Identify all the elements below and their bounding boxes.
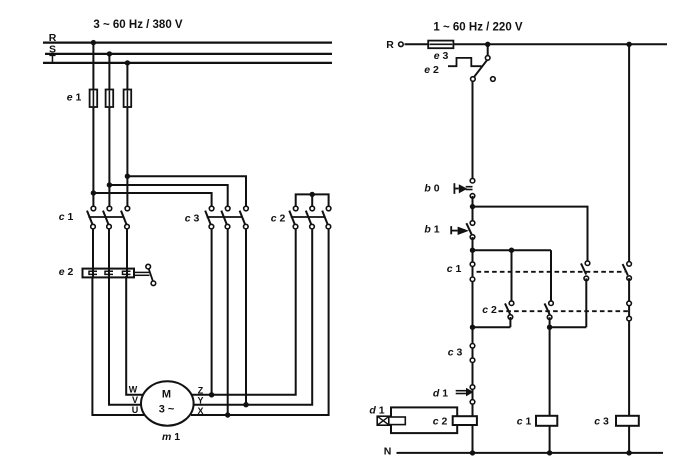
c1 pole3 top terminal	[125, 206, 130, 211]
svg-text:e 3: e 3	[434, 50, 449, 62]
c3 pole3 bottom terminal	[244, 224, 249, 229]
contactor c3	[185, 206, 249, 229]
svg-text:T: T	[49, 53, 56, 65]
svg-text:c 2: c 2	[433, 416, 448, 428]
wire c3 pole3 down to Y row	[245, 227, 247, 405]
wire branch b0 to c1 contact (587)	[473, 207, 588, 264]
svg-text:3 ~: 3 ~	[159, 404, 175, 416]
svg-text:e 1: e 1	[67, 92, 82, 104]
e2 trip rod	[134, 271, 150, 273]
terminal R	[399, 42, 404, 47]
e2 bottom terminal	[471, 77, 476, 82]
svg-text:W: W	[129, 385, 138, 395]
c2 pole3 bottom terminal	[326, 224, 331, 229]
wire branch S to c3 pole2	[109, 185, 227, 209]
wire bottom tie right	[550, 326, 587, 328]
node T tap	[125, 60, 130, 65]
wire branch T to c3 pole3	[127, 176, 246, 208]
c3 pole3 lever	[240, 211, 245, 225]
contactor c1	[59, 206, 130, 229]
pushbutton b0	[424, 178, 474, 198]
svg-text:d 1: d 1	[433, 388, 448, 400]
c1 pole3 bottom terminal	[125, 224, 130, 229]
motor m1 body	[141, 381, 194, 425]
svg-text:e 2: e 2	[424, 64, 439, 76]
e2 open terminal	[491, 77, 496, 82]
wire phase S drop	[108, 54, 110, 209]
rail R	[43, 41, 332, 43]
wire N rail	[397, 452, 664, 454]
svg-text:c 3: c 3	[448, 347, 463, 359]
c3 pole2 lever	[221, 211, 226, 225]
node branch T	[125, 174, 130, 179]
wire main column lower	[472, 237, 474, 453]
c1 linkage	[88, 216, 123, 218]
c1 pole1 top terminal	[91, 206, 96, 211]
wire b0 to b1	[472, 196, 474, 223]
c1 linkage dashed	[477, 271, 626, 273]
wire c1 pole2 to motor V	[109, 229, 142, 405]
svg-text:b 0: b 0	[424, 183, 439, 195]
svg-text:d 1: d 1	[369, 404, 384, 416]
svg-text:m 1: m 1	[162, 431, 180, 443]
e2 trip top terminal	[146, 264, 151, 269]
e2 top terminal	[485, 56, 490, 61]
node Y/c3p3	[243, 402, 248, 407]
c2 pole2 lever	[306, 211, 311, 225]
svg-text:V: V	[132, 395, 138, 405]
lever	[581, 263, 586, 274]
svg-text:c 1: c 1	[59, 211, 74, 223]
e2 control contact	[424, 44, 495, 81]
node Z/c3p1	[209, 392, 214, 397]
fuse e1 pole2	[106, 90, 114, 108]
b1 lever	[466, 223, 471, 235]
d1 timed contact	[433, 385, 475, 404]
svg-text:c 1: c 1	[447, 263, 462, 275]
right branch (629)	[623, 44, 632, 453]
node N / c1 coil	[547, 450, 552, 455]
c1 pole2 bottom terminal	[107, 224, 112, 229]
node top rail / right branch	[626, 42, 631, 47]
svg-text:b 1: b 1	[424, 224, 439, 236]
node branch 511	[509, 248, 514, 253]
b1 plunger	[458, 227, 469, 235]
svg-text:c 3: c 3	[594, 415, 609, 427]
svg-text:c 1: c 1	[517, 415, 532, 427]
svg-text:c 2: c 2	[271, 213, 286, 225]
node X/c3p2	[225, 412, 230, 417]
e2 thermal bump	[448, 58, 482, 66]
c2 aux contact (551)	[545, 250, 554, 453]
c2 aux contact (629)	[627, 301, 632, 306]
svg-text:R: R	[386, 39, 394, 51]
e2 trip bottom terminal	[151, 281, 156, 286]
node top rail / e2	[485, 42, 490, 47]
c1 pole1 bottom terminal	[91, 224, 96, 229]
node tie left	[470, 325, 475, 330]
wire motor X row to c2 pole3	[191, 227, 329, 415]
wire main column upper	[472, 81, 474, 181]
c2 linkage dashed	[499, 310, 630, 312]
wire bottom tie left	[473, 326, 511, 328]
svg-text:1 ~ 60 Hz / 220 V: 1 ~ 60 Hz / 220 V	[433, 22, 523, 34]
c3 pole1 top terminal	[209, 206, 214, 211]
c3 pole3 top terminal	[244, 206, 249, 211]
wire 511 drop	[511, 250, 513, 303]
c1 pole2 top terminal	[107, 206, 112, 211]
b0 bottom terminal	[470, 194, 475, 199]
e2 trip lever	[149, 269, 153, 281]
c1 aux contact (main column)	[470, 262, 475, 267]
svg-text:U: U	[132, 405, 139, 415]
c3 interlock contact (main column)	[470, 344, 475, 349]
svg-text:c 2: c 2	[482, 304, 497, 316]
c1 pole3 lever	[121, 211, 126, 225]
e2 heater pole2	[105, 271, 113, 274]
c1 pole1 lever	[87, 211, 92, 225]
b0 plunger	[459, 184, 468, 193]
wire 511 bottom	[509, 317, 511, 327]
svg-text:N: N	[384, 446, 392, 458]
b0 bridge	[466, 186, 473, 188]
lever	[545, 303, 550, 314]
fuse e1 pole3	[124, 90, 132, 108]
timer d1 link bar	[389, 417, 406, 425]
e2 stub	[487, 44, 489, 58]
pushbutton b1	[424, 221, 474, 240]
c1 pole2 lever	[103, 211, 108, 225]
svg-text:3 ~ 60 Hz / 380 V: 3 ~ 60 Hz / 380 V	[93, 19, 183, 31]
node R tap	[91, 40, 96, 45]
node N / c3 coil	[626, 450, 631, 455]
b1 top terminal	[470, 221, 475, 226]
svg-text:M: M	[162, 389, 171, 401]
rail S	[45, 53, 332, 55]
wire c1 pole3 to motor W	[126, 229, 144, 395]
node branch S	[107, 182, 112, 187]
d1 arrow	[456, 390, 467, 392]
svg-text:R: R	[49, 32, 57, 44]
svg-text:c 3: c 3	[185, 213, 200, 225]
c2 pole3 lever	[322, 211, 327, 225]
wire 629 lower	[628, 278, 630, 453]
wire branch R to c3 pole1	[93, 193, 211, 209]
fuse e1 pole1	[90, 90, 98, 108]
node N / c2 coil	[470, 450, 475, 455]
c2 pole1 top terminal	[293, 206, 298, 211]
c3 linkage	[207, 216, 242, 218]
wire phase R drop	[92, 43, 94, 209]
wire c3 pole2 down to X row	[227, 227, 229, 415]
contactor c2	[271, 192, 331, 229]
wire motor Y row to c2 pole2	[193, 227, 312, 405]
node branch R	[91, 190, 96, 195]
node b1 branch	[470, 248, 475, 253]
c3 pole1 lever	[205, 211, 210, 225]
timer d1 motor box	[377, 416, 389, 425]
node c2 bar	[310, 192, 315, 197]
c2 pole2 top terminal	[310, 206, 315, 211]
c1 aux contact (587)	[581, 261, 590, 327]
overload relay e2 body	[83, 269, 135, 278]
c2 aux contact (511)	[505, 250, 514, 327]
b1 bottom terminal	[470, 235, 475, 240]
c1 aux contact (629) lever	[623, 264, 628, 275]
c2 pole3 top terminal	[326, 206, 331, 211]
wire motor Z row to c2 pole1	[192, 227, 296, 395]
wire top rail	[405, 43, 668, 45]
lever	[505, 303, 510, 314]
e2 heater pole3	[123, 271, 131, 274]
rail T	[43, 62, 332, 64]
wire 629 upper	[628, 44, 630, 264]
e2 heater pole1	[89, 271, 97, 274]
c2 linkage	[291, 216, 325, 218]
fuse e3	[428, 41, 453, 49]
node S tap	[107, 51, 112, 56]
wire branch b1 row	[473, 249, 552, 251]
c3 pole1 bottom terminal	[209, 224, 214, 229]
wire 587 bottom	[585, 278, 587, 327]
node tie right	[547, 325, 552, 330]
svg-text:e 2: e 2	[59, 266, 74, 278]
wire c1 pole1 to motor U	[92, 229, 144, 415]
c2 shorting bar	[296, 194, 329, 208]
wire c3 pole1 down to Z row	[211, 227, 213, 395]
coil c2	[453, 416, 477, 425]
c2 pole2 bottom terminal	[310, 224, 315, 229]
wire phase T drop	[126, 63, 128, 209]
e2 lever	[474, 60, 487, 77]
c3 pole2 bottom terminal	[225, 224, 230, 229]
wire 551 down to coil c1 and N	[549, 317, 551, 453]
c3 pole2 top terminal	[225, 206, 230, 211]
coil c3	[616, 416, 639, 426]
b0 top terminal	[470, 178, 475, 183]
timer d1 body	[391, 407, 457, 433]
c2 pole1 bottom terminal	[293, 224, 298, 229]
coil c1	[536, 416, 557, 426]
wire 551 drop	[550, 250, 552, 303]
c2 pole1 lever	[289, 211, 294, 225]
c2 bar middle stub	[311, 194, 313, 208]
node b0 branch	[470, 204, 475, 209]
